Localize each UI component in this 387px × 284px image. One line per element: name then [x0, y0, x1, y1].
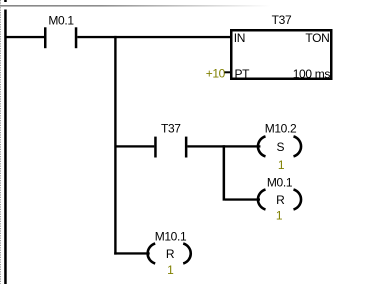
contact T37 — [154, 137, 187, 158]
wire: vertical junction down to reset rung — [223, 145, 226, 200]
coil M10.1 (R) — [148, 244, 191, 264]
svg-text:M0.1: M0.1 — [48, 14, 74, 28]
wire: vertical branch from rung 1 down — [114, 36, 116, 255]
svg-text:1: 1 — [167, 263, 174, 277]
wire: rail to contact M0.1 — [6, 36, 44, 38]
network separator line — [0, 5, 387, 7]
wire: contact T37 to coil M10.2 — [187, 145, 260, 147]
svg-text:1: 1 — [276, 209, 283, 223]
svg-text:M10.2: M10.2 — [265, 121, 297, 135]
coil M10.2 (S) — [258, 136, 301, 156]
svg-text:M10.1: M10.1 — [155, 229, 187, 243]
svg-text:100 ms: 100 ms — [293, 67, 331, 81]
svg-text:T37: T37 — [272, 13, 292, 27]
wire: bottom branch to coil M10.1 — [114, 252, 150, 254]
timer T37 box — [231, 30, 331, 79]
left power rail — [4, 10, 7, 284]
svg-text:M0.1: M0.1 — [267, 176, 293, 190]
wire: +10 tick to PT pin — [225, 71, 231, 73]
svg-text:PT: PT — [235, 67, 251, 81]
svg-text:R: R — [276, 193, 285, 207]
svg-text:1: 1 — [278, 158, 285, 172]
wire: branch to contact T37 — [115, 145, 154, 147]
contact M0.1 — [44, 27, 77, 48]
svg-text:T37: T37 — [161, 121, 181, 135]
svg-text:+10: +10 — [206, 67, 226, 81]
svg-text:R: R — [166, 247, 175, 261]
coil M0.1 (R) — [258, 190, 301, 210]
svg-text:IN: IN — [234, 31, 245, 45]
wire: rail stub of previous network — [4, 0, 7, 2]
wire: contact M0.1 to timer T37 IN — [77, 36, 231, 38]
wire: junction to coil M0.1 — [225, 198, 260, 200]
svg-text:S: S — [276, 140, 284, 154]
svg-text:TON: TON — [305, 31, 329, 45]
